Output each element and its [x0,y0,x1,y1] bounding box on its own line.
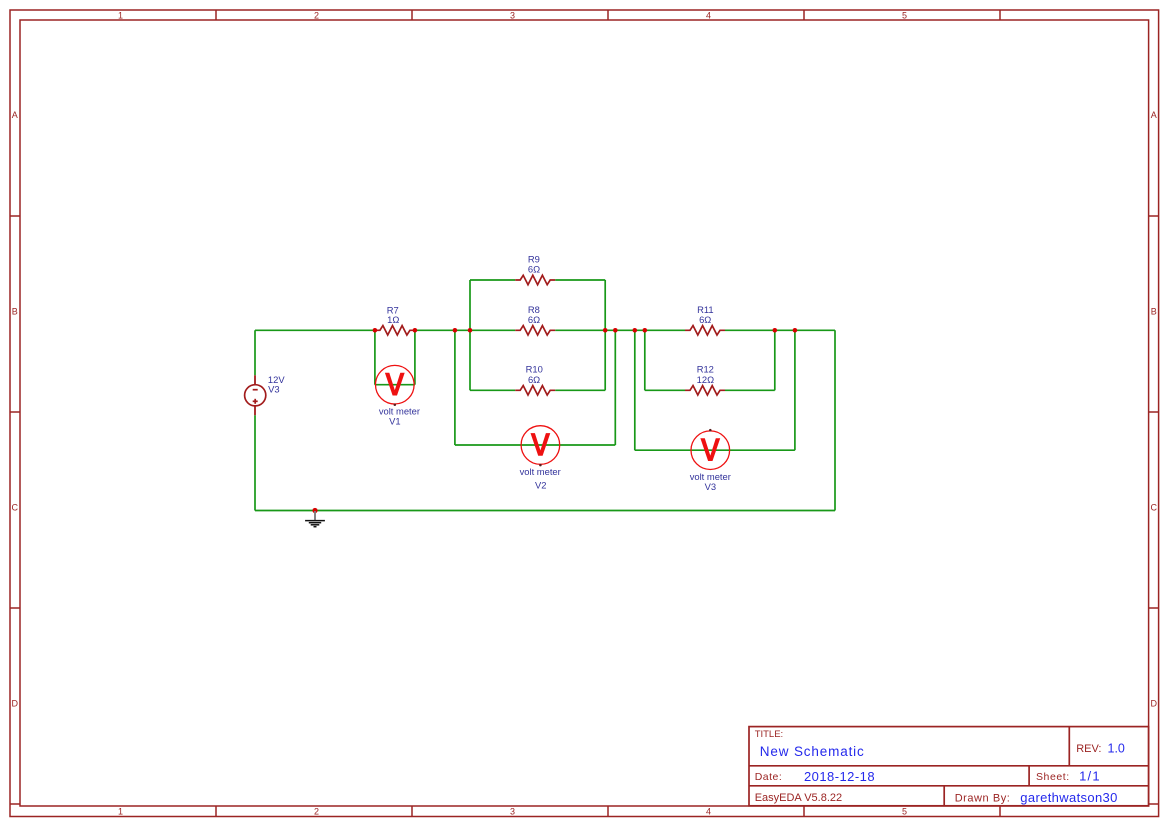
svg-text:TITLE:: TITLE: [755,729,784,740]
svg-text:B: B [12,306,18,316]
svg-text:volt meter: volt meter [520,466,561,477]
svg-text:3: 3 [510,807,515,817]
svg-text:3: 3 [510,10,515,20]
svg-text:5: 5 [902,10,907,20]
svg-text:1/1: 1/1 [1079,768,1101,783]
svg-text:Sheet:: Sheet: [1036,771,1070,783]
svg-text:2018-12-18: 2018-12-18 [804,769,875,784]
svg-text:6Ω: 6Ω [699,314,711,325]
svg-text:Date:: Date: [755,771,783,783]
svg-text:6Ω: 6Ω [528,374,540,385]
svg-text:REV:: REV: [1076,743,1101,755]
svg-text:V3: V3 [705,481,716,492]
svg-text:Drawn By:: Drawn By: [955,793,1011,805]
svg-text:4: 4 [706,807,711,817]
svg-text:R10: R10 [526,363,543,374]
svg-text:A: A [12,110,18,120]
svg-text:2: 2 [314,10,319,20]
svg-text:6Ω: 6Ω [528,314,540,325]
svg-text:V2: V2 [535,480,546,491]
svg-text:2: 2 [314,807,319,817]
svg-text:garethwatson30: garethwatson30 [1020,790,1117,805]
svg-text:New Schematic: New Schematic [760,744,865,759]
svg-text:V1: V1 [389,416,400,427]
svg-text:1Ω: 1Ω [387,314,399,325]
svg-text:C: C [1151,502,1158,512]
svg-text:EasyEDA V5.8.22: EasyEDA V5.8.22 [755,792,842,804]
svg-text:V3: V3 [268,384,279,395]
svg-text:6Ω: 6Ω [528,263,540,274]
svg-text:1: 1 [118,10,123,20]
svg-text:D: D [12,698,19,708]
svg-text:4: 4 [706,10,711,20]
svg-text:12Ω: 12Ω [697,374,714,385]
svg-text:B: B [1151,306,1157,316]
svg-text:5: 5 [902,807,907,817]
svg-text:A: A [1151,110,1157,120]
svg-text:1.0: 1.0 [1108,741,1125,755]
svg-text:1: 1 [118,807,123,817]
svg-text:D: D [1151,698,1158,708]
svg-text:C: C [12,502,19,512]
